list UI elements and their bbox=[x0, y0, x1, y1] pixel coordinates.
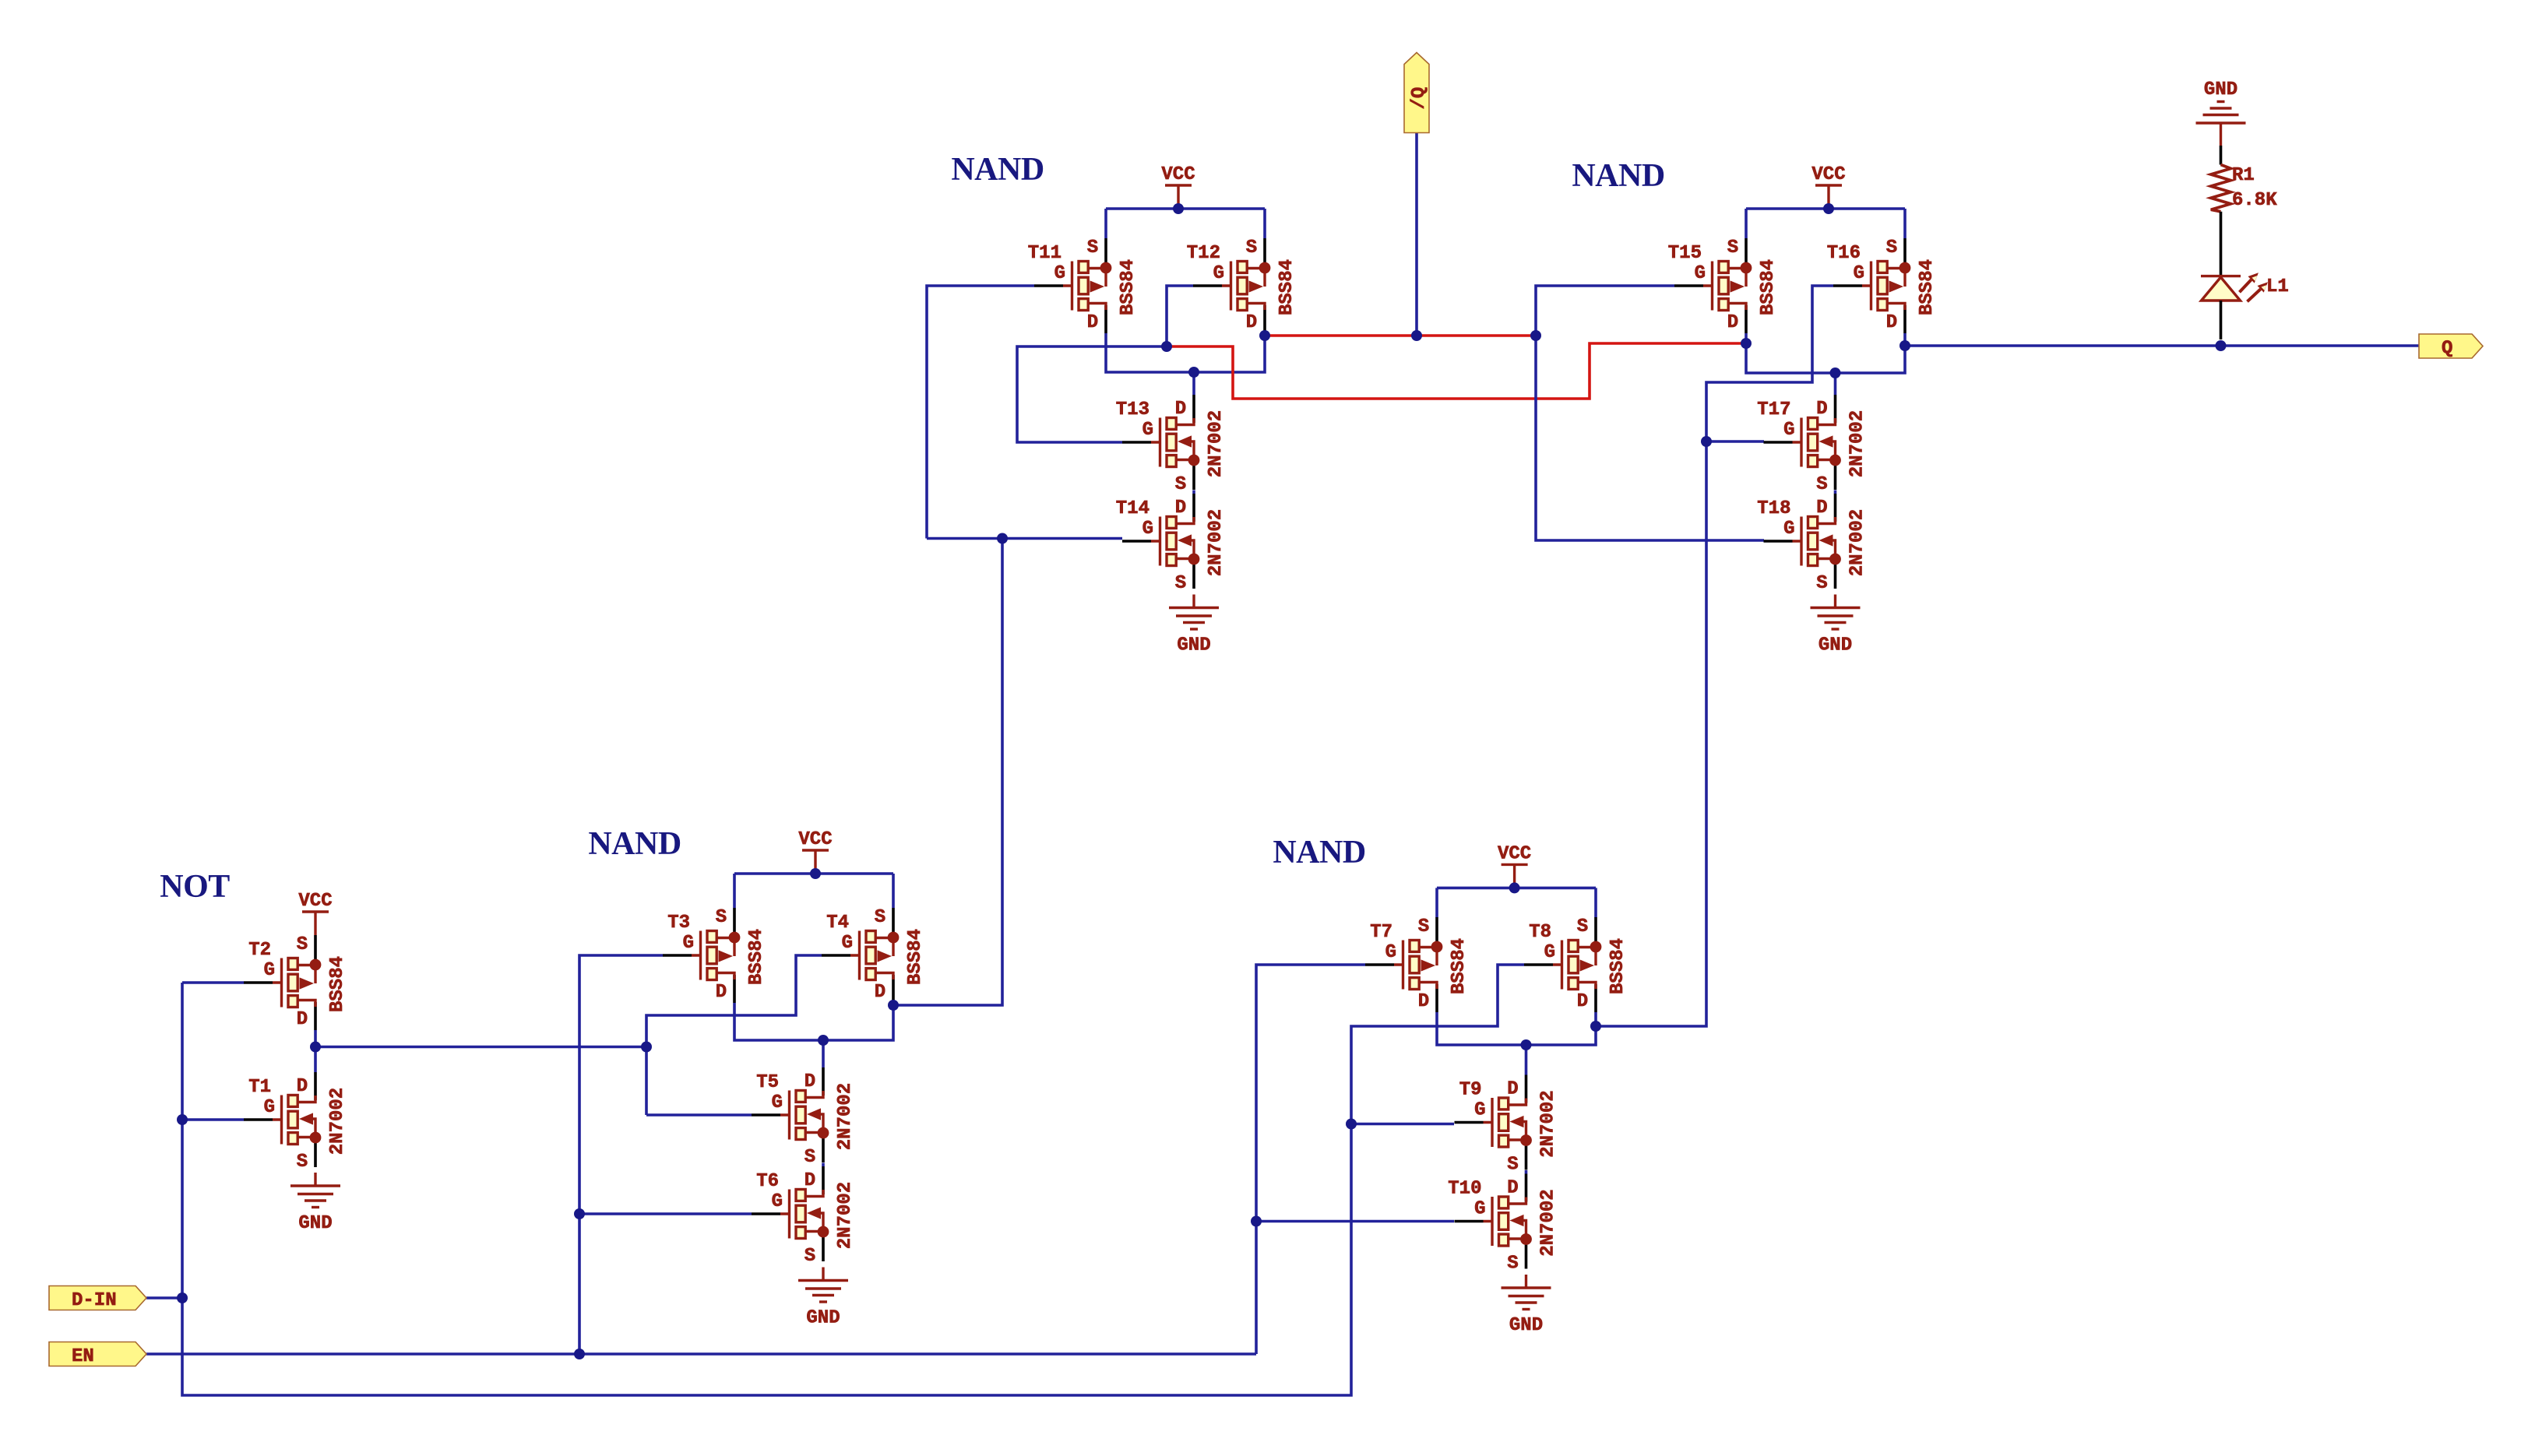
transistor T7 (PMOS BSS84) bbox=[1365, 916, 1470, 1012]
svg-text:S: S bbox=[1087, 237, 1098, 258]
wire Q output to flag bbox=[1905, 344, 2419, 347]
net flag Q bbox=[2419, 334, 2483, 360]
wire NOT output to T5 gate bbox=[646, 1113, 752, 1117]
svg-text:D: D bbox=[716, 982, 727, 1003]
wire /Q (red) to NAND4 gates bbox=[1265, 334, 1536, 337]
svg-text:T13: T13 bbox=[1116, 399, 1150, 420]
svg-text:T2: T2 bbox=[248, 940, 271, 961]
wire NAND1 NMOS column links bbox=[1192, 372, 1195, 494]
svg-text:D: D bbox=[1886, 312, 1897, 333]
svg-text:S: S bbox=[1507, 1254, 1518, 1275]
svg-text:BSS84: BSS84 bbox=[327, 956, 348, 1012]
transistor T18 (NMOS 2N7002) bbox=[1757, 494, 1868, 594]
svg-text:D: D bbox=[1507, 1178, 1518, 1199]
svg-text:T14: T14 bbox=[1116, 498, 1150, 519]
svg-text:NOT: NOT bbox=[160, 869, 230, 905]
transistor T2 (PMOS BSS84) bbox=[244, 934, 348, 1030]
ground symbol GND at (1057,1644.5) bbox=[798, 1268, 848, 1329]
svg-text:BSS84: BSS84 bbox=[1758, 259, 1779, 315]
node T1 gate / D-IN bbox=[177, 1114, 188, 1125]
svg-text:R1: R1 bbox=[2232, 165, 2255, 186]
svg-text:D: D bbox=[1175, 498, 1186, 519]
svg-text:2N7002: 2N7002 bbox=[1538, 1090, 1559, 1157]
svg-text:G: G bbox=[1854, 263, 1864, 284]
transistor T4 (PMOS BSS84) bbox=[822, 907, 926, 1003]
wire NAND4 VCC rail bbox=[1746, 207, 1905, 210]
wire NAND4 drain rail bbox=[1746, 333, 1905, 373]
node NAND3 output bbox=[1590, 1021, 1601, 1032]
svg-text:S: S bbox=[804, 1147, 815, 1168]
svg-text:BSS84: BSS84 bbox=[1607, 938, 1628, 994]
node NAND3 drain rail bbox=[1521, 1039, 1532, 1050]
power symbol VCC at (1944.6,1140.4) bbox=[1498, 843, 1531, 888]
wire EN branch up to T3 gate bbox=[579, 955, 663, 1354]
transistor T15 (PMOS BSS84) bbox=[1668, 237, 1779, 333]
node EN branch bbox=[574, 1349, 585, 1359]
svg-text:G: G bbox=[264, 1097, 275, 1118]
svg-text:G: G bbox=[1385, 942, 1396, 963]
svg-text:S: S bbox=[804, 1246, 815, 1267]
svg-text:T7: T7 bbox=[1370, 922, 1392, 943]
node EN / T10 gate bbox=[1251, 1216, 1262, 1227]
svg-text:D: D bbox=[1087, 312, 1098, 333]
wire NAND4 NMOS column links bbox=[1834, 373, 1837, 494]
svg-text:VCC: VCC bbox=[798, 829, 832, 850]
svg-text:D: D bbox=[297, 1009, 308, 1030]
svg-text:D-IN: D-IN bbox=[72, 1290, 117, 1311]
node /Q flag tap bbox=[1411, 330, 1422, 341]
node NAND2 drain rail bbox=[818, 1035, 829, 1046]
transistor T14 (NMOS 2N7002) bbox=[1116, 494, 1227, 594]
wire NAND2 output up to latch bbox=[893, 539, 1002, 1006]
wire NOT output to T4 gate bbox=[646, 955, 822, 1115]
net flag /Q bbox=[1404, 53, 1430, 133]
svg-text:GND: GND bbox=[298, 1213, 332, 1234]
svg-text:T18: T18 bbox=[1757, 498, 1790, 519]
svg-text:BSS84: BSS84 bbox=[1118, 259, 1139, 315]
svg-text:G: G bbox=[1142, 420, 1153, 441]
svg-text:Q: Q bbox=[2442, 339, 2452, 360]
svg-text:D: D bbox=[297, 1076, 308, 1097]
wire NAND1 VCC rail bbox=[1106, 207, 1265, 210]
node /Q at T12 drain bbox=[1259, 330, 1270, 341]
svg-text:2N7002: 2N7002 bbox=[835, 1083, 856, 1150]
svg-text:BSS84: BSS84 bbox=[1917, 259, 1938, 315]
wire D-IN net to T9 gate bbox=[1351, 1123, 1454, 1126]
svg-text:2N7002: 2N7002 bbox=[1847, 410, 1868, 477]
ground symbol GND at (2356.5,780.5) bbox=[1811, 595, 1861, 656]
wire NAND1 source drops bbox=[1106, 209, 1265, 238]
wire NAND2 output to T14 gate bbox=[1002, 537, 1122, 540]
wire NAND4 source drops bbox=[1746, 209, 1905, 238]
ground symbol GND at (1959.5,1654) bbox=[1502, 1275, 1551, 1336]
transistor T3 (PMOS BSS84) bbox=[663, 907, 767, 1003]
transistor T10 (NMOS 2N7002) bbox=[1448, 1174, 1558, 1275]
svg-text:T9: T9 bbox=[1459, 1080, 1482, 1101]
svg-text:D: D bbox=[1418, 991, 1429, 1012]
svg-text:S: S bbox=[1727, 237, 1738, 258]
power symbol VCC at (2348,268) bbox=[1811, 164, 1845, 209]
svg-text:G: G bbox=[772, 1092, 783, 1113]
wire to T1 gate bbox=[182, 1118, 244, 1121]
node T12/T13 gates bbox=[1161, 341, 1172, 352]
svg-text:G: G bbox=[772, 1191, 783, 1212]
svg-text:2N7002: 2N7002 bbox=[1847, 509, 1868, 576]
svg-text:GND: GND bbox=[1818, 635, 1852, 656]
wire NAND3 VCC rail bbox=[1437, 887, 1596, 890]
node Q feedback at T15 drain bbox=[1741, 338, 1752, 349]
svg-text:NAND: NAND bbox=[1572, 158, 1664, 194]
svg-text:G: G bbox=[1474, 1100, 1485, 1121]
svg-text:GND: GND bbox=[2204, 79, 2237, 100]
svg-text:VCC: VCC bbox=[1498, 843, 1531, 864]
svg-text:G: G bbox=[264, 960, 275, 981]
svg-text:S: S bbox=[297, 934, 308, 955]
svg-text:G: G bbox=[1695, 263, 1706, 284]
wire NOT output to NAND2 inputs bbox=[315, 1046, 646, 1049]
wire NAND1 drain rail bbox=[1106, 333, 1265, 372]
svg-text:S: S bbox=[1816, 474, 1827, 495]
svg-text:S: S bbox=[1175, 573, 1186, 594]
svg-text:T8: T8 bbox=[1529, 922, 1551, 943]
node T17 gate bbox=[1701, 436, 1712, 447]
svg-text:T6: T6 bbox=[756, 1171, 779, 1192]
svg-text:D: D bbox=[1175, 399, 1186, 420]
svg-text:NAND: NAND bbox=[1273, 835, 1365, 870]
svg-text:S: S bbox=[1507, 1155, 1518, 1176]
node Q at T16 drain bbox=[1899, 340, 1910, 351]
wire /Q flag down to /Q net bbox=[1415, 133, 1418, 336]
wire NAND2 NMOS column links bbox=[822, 1040, 825, 1166]
node D-IN bbox=[177, 1292, 188, 1303]
ground symbol GND at (1533,780.5) bbox=[1169, 595, 1219, 656]
wire D-IN vertical + bottom run to NAND3 inputs bbox=[182, 983, 1351, 1395]
svg-text:D: D bbox=[1246, 312, 1257, 333]
node NOT output at T2 drain bbox=[310, 1042, 321, 1053]
svg-text:D: D bbox=[875, 982, 885, 1003]
wire EN branch to T6 gate bbox=[579, 1212, 752, 1215]
svg-text:G: G bbox=[1544, 942, 1555, 963]
node D-IN / T9 gate bbox=[1346, 1119, 1357, 1130]
svg-text:T17: T17 bbox=[1757, 399, 1790, 420]
node NAND2 output bbox=[888, 1000, 899, 1011]
svg-text:L1: L1 bbox=[2266, 276, 2289, 297]
node NAND4 drain rail bbox=[1830, 368, 1841, 378]
wire NAND2 output toward T11 gate bbox=[927, 537, 1002, 540]
wire up to T12 gate bbox=[1167, 286, 1193, 346]
svg-text:BSS84: BSS84 bbox=[746, 929, 767, 985]
wire NAND3 drain rail bbox=[1437, 1012, 1596, 1045]
svg-text:2N7002: 2N7002 bbox=[327, 1088, 348, 1155]
svg-text:VCC: VCC bbox=[1811, 164, 1845, 185]
svg-text:S: S bbox=[1886, 237, 1897, 258]
svg-text:G: G bbox=[1783, 420, 1794, 441]
power symbol VCC at (405,1201) bbox=[298, 891, 332, 935]
ground symbol GND (top, inverted) at (2851.5,158) bbox=[2196, 79, 2246, 146]
svg-text:T11: T11 bbox=[1028, 243, 1062, 264]
svg-text:D: D bbox=[804, 1071, 815, 1092]
svg-text:D: D bbox=[1577, 991, 1588, 1012]
wire D-IN flag to vertical bbox=[146, 1296, 182, 1299]
transistor T1 (NMOS 2N7002) bbox=[244, 1072, 348, 1173]
svg-text:2N7002: 2N7002 bbox=[835, 1182, 856, 1249]
node T14 gate bbox=[997, 533, 1008, 544]
svg-text:T5: T5 bbox=[756, 1072, 779, 1093]
svg-text:G: G bbox=[842, 933, 853, 954]
wire to T2 gate bbox=[182, 981, 244, 984]
svg-text:G: G bbox=[1054, 263, 1065, 284]
svg-text:BSS84: BSS84 bbox=[1276, 259, 1297, 315]
svg-text:G: G bbox=[1142, 519, 1153, 540]
svg-text:GND: GND bbox=[806, 1308, 840, 1329]
wire NAND3 source drops bbox=[1437, 888, 1596, 917]
net flag D-IN bbox=[49, 1286, 146, 1312]
svg-text:T4: T4 bbox=[826, 913, 849, 934]
wire EN branch to T10 gate bbox=[1256, 1220, 1454, 1223]
svg-text:G: G bbox=[1213, 263, 1224, 284]
svg-text:VCC: VCC bbox=[1161, 164, 1195, 185]
svg-text:2N7002: 2N7002 bbox=[1206, 410, 1227, 477]
svg-text:G: G bbox=[1783, 519, 1794, 540]
wire NAND2 output up to T11 gate bbox=[927, 286, 1034, 539]
svg-text:S: S bbox=[716, 907, 727, 928]
LED L1 bbox=[2201, 212, 2289, 339]
svg-text:D: D bbox=[804, 1170, 815, 1191]
svg-text:GND: GND bbox=[1177, 635, 1210, 656]
svg-text:S: S bbox=[1175, 474, 1186, 495]
wire NAND2 VCC rail bbox=[734, 872, 893, 875]
node NAND1 drain rail bbox=[1188, 367, 1199, 378]
node NOT output bbox=[641, 1042, 652, 1053]
power symbol VCC at (1513,268) bbox=[1161, 164, 1195, 209]
node EN / T6 gate bbox=[574, 1208, 585, 1219]
wire NAND2 drain rail bbox=[734, 1003, 893, 1040]
svg-text:S: S bbox=[875, 907, 885, 928]
svg-text:GND: GND bbox=[1509, 1315, 1543, 1336]
svg-text:VCC: VCC bbox=[298, 891, 332, 912]
wire Q feedback (red) to T15 drain bbox=[1167, 343, 1746, 399]
node Q / LED bbox=[2216, 340, 2227, 351]
svg-text:S: S bbox=[1816, 573, 1827, 594]
svg-text:S: S bbox=[1418, 916, 1429, 937]
svg-text:2N7002: 2N7002 bbox=[1206, 509, 1227, 576]
wire EN up to T7 gate bbox=[1256, 965, 1365, 1354]
svg-text:BSS84: BSS84 bbox=[905, 929, 926, 985]
wire NAND3 output up to T16 gate bbox=[1596, 286, 1833, 1026]
svg-text:D: D bbox=[1727, 312, 1738, 333]
wire EN horizontal run bbox=[146, 1352, 1256, 1356]
transistor T9 (NMOS 2N7002) bbox=[1455, 1075, 1559, 1176]
transistor T16 (PMOS BSS84) bbox=[1827, 237, 1938, 333]
svg-text:S: S bbox=[297, 1152, 308, 1173]
svg-text:G: G bbox=[683, 933, 694, 954]
svg-text:S: S bbox=[1577, 916, 1588, 937]
transistor T12 (PMOS BSS84) bbox=[1187, 237, 1297, 333]
power symbol VCC at (1047,1122) bbox=[798, 829, 832, 874]
svg-text:T1: T1 bbox=[248, 1077, 271, 1098]
svg-text:S: S bbox=[1246, 237, 1257, 258]
transistor T6 (NMOS 2N7002) bbox=[752, 1166, 856, 1267]
wire NAND3 NMOS column links bbox=[1525, 1045, 1528, 1174]
svg-text:T16: T16 bbox=[1827, 243, 1861, 264]
svg-text:NAND: NAND bbox=[951, 152, 1044, 188]
wire NAND3 output to T17 gate bbox=[1706, 440, 1764, 443]
transistor T17 (NMOS 2N7002) bbox=[1757, 395, 1868, 495]
resistor R1 6.8K bbox=[2211, 146, 2277, 212]
transistor T8 (PMOS BSS84) bbox=[1524, 916, 1628, 1012]
svg-text:D: D bbox=[1507, 1079, 1518, 1100]
wire NAND2 source drops bbox=[734, 874, 893, 908]
svg-text:/Q: /Q bbox=[1409, 87, 1430, 110]
svg-text:T12: T12 bbox=[1187, 243, 1220, 264]
transistor T13 (NMOS 2N7002) bbox=[1116, 395, 1227, 495]
svg-text:2N7002: 2N7002 bbox=[1538, 1189, 1559, 1256]
wire /Q net to T15 and T18 gates bbox=[1536, 286, 1764, 540]
ground symbol GND at (405,1523) bbox=[290, 1173, 340, 1234]
svg-text:D: D bbox=[1816, 399, 1827, 420]
svg-text:BSS84: BSS84 bbox=[1449, 938, 1470, 994]
wire D-IN net up to T8 gate bbox=[1351, 965, 1524, 1124]
svg-text:G: G bbox=[1474, 1199, 1485, 1220]
svg-text:T3: T3 bbox=[667, 913, 690, 934]
net flag EN bbox=[49, 1342, 146, 1368]
svg-text:NAND: NAND bbox=[588, 826, 681, 862]
svg-text:T10: T10 bbox=[1448, 1179, 1481, 1200]
wire T13 gate to T12 gate node bbox=[1017, 346, 1167, 442]
svg-text:D: D bbox=[1816, 498, 1827, 519]
transistor T11 (PMOS BSS84) bbox=[1028, 237, 1139, 333]
svg-text:6.8K: 6.8K bbox=[2232, 190, 2277, 211]
wire T2 drain to T1 drain bbox=[314, 1030, 317, 1072]
node /Q to NAND4 gates bbox=[1530, 330, 1541, 341]
svg-text:T15: T15 bbox=[1668, 243, 1702, 264]
transistor T5 (NMOS 2N7002) bbox=[752, 1067, 856, 1168]
svg-text:EN: EN bbox=[72, 1346, 94, 1367]
